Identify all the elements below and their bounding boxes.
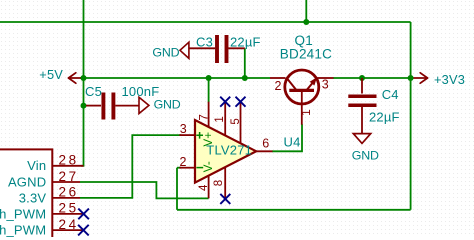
svg-text:1: 1 [301, 109, 313, 115]
svg-text:22µF: 22µF [230, 34, 261, 49]
svg-text:ch_PWM: ch_PWM [0, 223, 46, 237]
svg-text:+5V: +5V [39, 67, 63, 82]
svg-text:4: 4 [198, 184, 210, 191]
svg-text:BD241C: BD241C [280, 47, 332, 62]
svg-text:GND: GND [152, 46, 179, 60]
svg-text:GND: GND [352, 148, 379, 162]
svg-text:V-: V- [203, 161, 215, 172]
svg-text:6: 6 [262, 136, 269, 150]
svg-text:5: 5 [230, 118, 242, 124]
svg-text:+3V3: +3V3 [434, 72, 465, 87]
svg-text:25: 25 [59, 201, 79, 216]
svg-text:U4: U4 [284, 135, 301, 150]
svg-text:8: 8 [213, 180, 225, 186]
svg-text:AGND: AGND [8, 174, 46, 189]
svg-text:3: 3 [180, 122, 187, 136]
svg-text:22µF: 22µF [369, 109, 400, 124]
svg-text:3: 3 [322, 77, 329, 91]
svg-text:C4: C4 [382, 87, 399, 102]
svg-text:C5: C5 [85, 84, 102, 99]
svg-text:Vin: Vin [27, 158, 46, 173]
svg-text:26: 26 [59, 185, 79, 200]
svg-text:TLV271: TLV271 [206, 143, 252, 158]
svg-text:C3: C3 [196, 34, 213, 49]
svg-text:GND: GND [154, 98, 181, 112]
svg-text:24: 24 [59, 217, 79, 232]
svg-text:ch_PWM: ch_PWM [0, 206, 46, 221]
svg-text:1: 1 [214, 116, 226, 122]
svg-text:27: 27 [59, 169, 79, 184]
svg-text:28: 28 [59, 153, 79, 168]
svg-text:2: 2 [275, 79, 282, 93]
svg-text:3.3V: 3.3V [19, 190, 47, 205]
svg-text:7: 7 [199, 114, 211, 120]
svg-text:2: 2 [180, 155, 187, 169]
svg-text:Q1: Q1 [295, 33, 313, 48]
